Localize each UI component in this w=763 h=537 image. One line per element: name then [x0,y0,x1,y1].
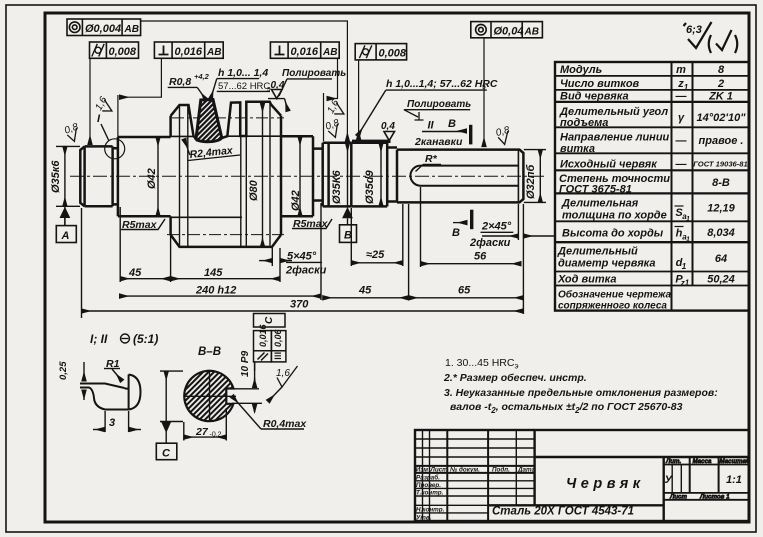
svg-text:Листов 1: Листов 1 [699,494,730,501]
svg-text:14°02'10": 14°02'10" [697,112,747,124]
svg-text:Т.контр.: Т.контр. [416,490,444,497]
svg-text:1:1: 1:1 [726,474,742,486]
svg-text:Ø0,04: Ø0,04 [494,26,524,38]
svg-text:витка: витка [560,143,595,155]
svg-text:1,6: 1,6 [276,368,290,379]
svg-text:Ø42: Ø42 [146,168,158,189]
svg-text:ГОСТ 3675-81: ГОСТ 3675-81 [559,184,632,196]
svg-text:Лит.: Лит. [665,458,681,465]
svg-text:диаметр червяка: диаметр червяка [558,258,656,270]
svg-text:С: С [162,448,171,460]
svg-text:I; II: I; II [90,332,108,346]
svg-text:Разраб.: Разраб. [416,474,440,482]
svg-text:Масштаб: Масштаб [720,458,751,465]
svg-text:2фаски: 2фаски [469,237,511,249]
svg-text:ZK 1: ZK 1 [708,91,733,103]
svg-text:Ход витка: Ход витка [557,274,616,286]
svg-text:0,016: 0,016 [258,323,268,347]
svg-text:Лист: Лист [430,466,449,473]
svg-text:толщина по хорде: толщина по хорде [562,210,667,222]
svg-text:АВ: АВ [206,47,221,58]
svg-text:27: 27 [195,426,209,438]
svg-text:Полировать: Полировать [407,99,471,110]
svg-text:1: 1 [686,216,690,223]
svg-text:2фаски: 2фаски [285,265,327,277]
svg-text:Лист: Лист [669,494,687,501]
svg-text:подъема: подъема [560,117,608,129]
svg-text:10 Р9: 10 Р9 [240,350,251,377]
svg-text:64: 64 [715,253,727,265]
svg-text:АВ: АВ [124,24,139,35]
svg-text:Ø32пб: Ø32пб [525,163,537,199]
svg-text:0,8: 0,8 [324,117,341,132]
svg-text:8: 8 [718,64,725,76]
svg-text:—: — [675,135,688,147]
svg-text:R0,4max: R0,4max [263,418,307,430]
svg-text:Модуль: Модуль [560,64,602,76]
svg-text:Сталь 20Х ГОСТ 4543-71: Сталь 20Х ГОСТ 4543-71 [492,506,634,518]
svg-text:сопряженного колеса: сопряженного колеса [558,301,667,312]
svg-text:2канавки: 2канавки [414,136,463,148]
svg-text:1: 1 [686,237,690,244]
svg-text:6;3: 6;3 [686,24,702,36]
svg-text:ГОСТ 19036-81: ГОСТ 19036-81 [693,160,748,169]
svg-text:+4,2: +4,2 [194,72,210,81]
svg-text:0,008: 0,008 [109,46,137,58]
svg-text:2.* Размер обеспеч. инстр.: 2.* Размер обеспеч. инстр. [443,372,587,384]
svg-text:z1: z1 [680,279,690,288]
svg-text:А: А [61,230,70,242]
svg-text:Изм: Изм [416,466,429,473]
svg-text:8,034: 8,034 [707,227,735,239]
svg-text:Ø42: Ø42 [290,190,302,211]
svg-text:Провер.: Провер. [416,482,441,489]
svg-text:Ø80: Ø80 [248,179,260,201]
svg-text:≈25: ≈25 [366,249,385,261]
svg-text:5×45°: 5×45° [287,251,317,263]
svg-text:Высота до хорды: Высота до хорды [562,228,664,240]
svg-text:3: 3 [109,417,115,429]
svg-text:Масса: Масса [693,458,713,465]
svg-text:В–В: В–В [198,346,221,358]
svg-text:Направление линии: Направление линии [560,132,670,144]
svg-text:m: m [676,64,686,76]
svg-text:12,19: 12,19 [707,203,735,215]
svg-text:Полировать: Полировать [282,68,346,79]
svg-text:0,4: 0,4 [381,121,395,132]
svg-text:АВ: АВ [524,27,539,38]
svg-text:II: II [428,120,435,132]
svg-text:370: 370 [290,299,309,311]
svg-text:3. Неуказанные предельные от: 3. Неуказанные предельные отклонения раз… [444,387,718,399]
svg-text:Ø35к6: Ø35к6 [50,160,62,193]
svg-text:γ: γ [678,112,685,124]
svg-text:Делительная: Делительная [561,198,639,210]
svg-text:45: 45 [358,285,372,297]
svg-text:АВ: АВ [322,47,337,58]
svg-text:Ø35d9: Ø35d9 [364,169,376,204]
svg-text:Червяк: Червяк [566,476,645,492]
svg-text:1: 1 [682,262,687,271]
svg-text:R0,8: R0,8 [169,76,191,88]
svg-text:Вид червяка: Вид червяка [560,91,629,103]
svg-text:0,8: 0,8 [63,121,80,136]
svg-text:1. 30...45 HRCэ: 1. 30...45 HRCэ [445,357,519,371]
svg-text:2: 2 [717,78,724,90]
svg-text:45: 45 [128,267,142,279]
svg-text:Обозначение чертежа: Обозначение чертежа [558,289,671,301]
svg-text:Подп.: Подп. [492,465,510,473]
svg-text:Дата: Дата [517,466,536,473]
svg-text:0,25: 0,25 [58,361,69,380]
svg-text:(5:1): (5:1) [133,332,158,346]
svg-text:h 1,0... 1,4: h 1,0... 1,4 [218,67,268,79]
svg-text:65: 65 [458,285,471,297]
svg-text:С: С [264,316,275,324]
svg-text:145: 145 [204,267,223,279]
svg-text:I: I [97,113,101,125]
svg-text:0,8: 0,8 [495,125,512,139]
svg-text:0,06: 0,06 [273,328,283,347]
svg-text:-0,2: -0,2 [210,432,222,439]
svg-text:240 h12: 240 h12 [195,285,236,297]
svg-text:—: — [675,91,688,103]
svg-text:Утв.: Утв. [416,515,432,522]
svg-text:57...62 HRC: 57...62 HRC [218,81,270,92]
svg-text:0,008: 0,008 [379,48,407,60]
svg-text:Н.контр.: Н.контр. [416,507,445,514]
svg-text:Делительный: Делительный [557,246,638,258]
svg-text:2×45°: 2×45° [481,221,512,233]
svg-text:Число витков: Число витков [560,78,640,90]
svg-text:Ø35К6: Ø35К6 [331,169,343,204]
svg-text:0,016: 0,016 [175,46,203,58]
svg-text:В: В [452,227,460,239]
svg-text:8-В: 8-В [712,177,730,189]
svg-text:Исходный червяк: Исходный червяк [560,159,658,171]
svg-text:56: 56 [474,251,487,263]
svg-text:0,016: 0,016 [291,46,319,58]
svg-text:В: В [448,118,456,130]
svg-text:—: — [675,159,688,171]
svg-text:№ докум.: № докум. [450,465,480,473]
svg-text:валов -t2, остальных ±t2/2 по: валов -t2, остальных ±t2/2 по ГОСТ 25670… [450,401,683,415]
svg-text:50,24: 50,24 [707,274,735,286]
svg-text:правое .: правое . [699,135,744,147]
svg-text:R*: R* [425,153,438,165]
svg-text:Ø0,004: Ø0,004 [85,23,121,35]
